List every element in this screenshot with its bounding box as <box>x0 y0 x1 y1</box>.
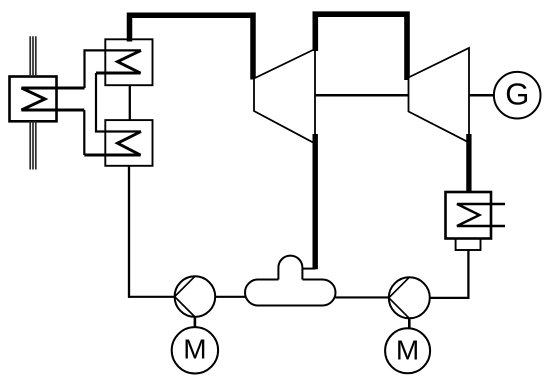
superheater E2 (upper box) <box>105 39 152 85</box>
generator G <box>494 72 541 119</box>
deaerator tank D1 (stadium body with open top gap) <box>245 280 335 306</box>
E2 coil zigzag <box>96 50 141 73</box>
extraction steam pipe (thick) T1 to deaerator <box>313 134 318 269</box>
svg-text:M: M <box>183 333 206 364</box>
HP turbine T1 <box>254 49 315 144</box>
LP turbine T2 <box>409 48 470 143</box>
wire E2 to E3 water link <box>129 85 131 120</box>
wire P1 to economizer riser <box>129 296 175 298</box>
flue gas duct lines (upper) <box>30 36 36 76</box>
wire E3 hot outlet back to E1 <box>83 110 85 155</box>
condenser hotwell <box>456 239 481 251</box>
E3 coil zigzag <box>84 132 141 156</box>
crossover steam pipe (thick) T1 to LP turbine <box>315 14 407 80</box>
svg-text:G: G <box>505 77 529 112</box>
wire P2 to deaerator <box>336 296 389 298</box>
stub P1 to motor M1 <box>194 317 197 328</box>
shaft T2 to generator <box>469 94 494 97</box>
condenser E4 <box>446 192 492 239</box>
motor M1 <box>172 327 218 373</box>
flue gas duct lines (lower) <box>30 121 36 169</box>
wire E2 hot outlet down to E3 hot inlet <box>96 73 141 132</box>
heat source exchanger E1 (left box) <box>10 77 57 122</box>
economizer E3 (lower box) <box>105 120 152 166</box>
wire deaerator to feed pump P1 <box>215 296 246 298</box>
deaerator dome <box>278 256 302 280</box>
wire E1 top outlet up to E2 hot inlet <box>85 50 142 88</box>
svg-text:M: M <box>396 335 419 366</box>
motor M2 <box>385 328 430 373</box>
E1 coil zigzag <box>22 88 85 110</box>
shaft T1 to T2 <box>315 94 409 97</box>
exhaust steam pipe (thick) T2 to condenser <box>466 134 471 193</box>
feed pump P1 <box>175 276 216 317</box>
feedwater riser wire <box>128 166 130 298</box>
E4 coil zigzag with cooling water stubs <box>457 204 505 226</box>
wire hotwell to condensate pump P2 <box>430 251 469 298</box>
main steam pipe (thick) E2 to HP turbine <box>130 15 254 79</box>
stub P2 to motor M2 <box>408 318 411 329</box>
condensate pump P2 <box>389 277 430 318</box>
wire dome to extraction pipe <box>302 268 315 270</box>
